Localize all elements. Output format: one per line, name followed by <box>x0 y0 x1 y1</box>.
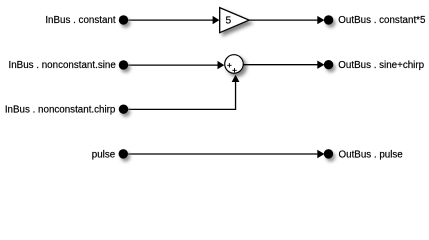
svg-text:pulse: pulse <box>92 150 116 161</box>
svg-text:InBus . nonconstant.chirp: InBus . nonconstant.chirp <box>5 104 116 115</box>
svg-text:OutBus . constant*5: OutBus . constant*5 <box>338 15 426 26</box>
svg-text:5: 5 <box>225 16 231 27</box>
svg-text:OutBus . sine+chirp: OutBus . sine+chirp <box>338 60 424 71</box>
svg-text:InBus . constant: InBus . constant <box>45 15 116 26</box>
svg-text:OutBus . pulse: OutBus . pulse <box>339 150 404 161</box>
svg-text:InBus . nonconstant.sine: InBus . nonconstant.sine <box>9 60 117 71</box>
